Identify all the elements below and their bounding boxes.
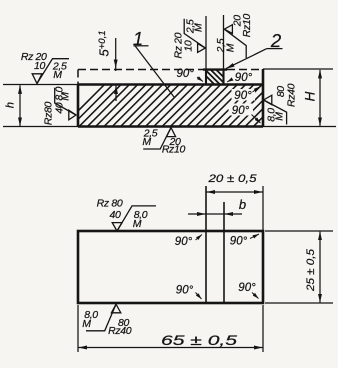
strip left extension line: [205, 16, 207, 70]
svg-text:Rz 80: Rz 80: [97, 198, 123, 210]
dimension 25±0,5: [265, 230, 333, 232]
roughness symbol S2 (Rz80/40 8,0 M) on left edge, rotated: [55, 88, 76, 120]
svg-text:10: 10: [34, 60, 45, 72]
svg-text:90°: 90°: [232, 105, 250, 117]
svg-text:90°: 90°: [235, 72, 253, 84]
dimension 20±0,5: [206, 191, 262, 193]
svg-text:25 ± 0,5: 25 ± 0,5: [305, 248, 317, 292]
roughness symbol S3 (Rz20/10 2,5 M) on strip left side, rotated: [184, 19, 205, 53]
bottom extension line: [3, 126, 336, 128]
roughness symbol S7 (Rz80/40 8,0 M) on top edge: [112, 206, 156, 231]
strip left line: [205, 186, 207, 303]
svg-text:65 ± 0,5: 65 ± 0,5: [161, 332, 237, 348]
90 deg label (bar bottom-right corner): [229, 104, 254, 116]
svg-text:20 ± 0,5: 20 ± 0,5: [207, 173, 257, 185]
dimension 5+0,1: [115, 38, 117, 68]
strip right extension line: [223, 15, 225, 70]
strip left edge: [205, 70, 207, 85]
strip right edge: [222, 70, 224, 85]
svg-text:М: М: [82, 318, 91, 330]
svg-text:Rz40: Rz40: [285, 83, 297, 107]
svg-text:90°: 90°: [176, 285, 194, 297]
svg-text:Rz10: Rz10: [162, 144, 186, 156]
dimension 65±0,5: [77, 305, 79, 352]
svg-text:b: b: [239, 197, 246, 212]
roughness symbol S5 (80/Rz40 8,0 M) on right edge, rotated mirrored: [264, 95, 287, 124]
hatch of bar (detail 1): [62, 84, 296, 127]
right extension above rect: [262, 186, 264, 231]
roughness symbol S6 (2,5 M 20/Rz10) on bottom surface, inverted: [143, 128, 175, 149]
svg-text:М: М: [60, 92, 72, 101]
bar (detail 1) contour: [78, 69, 263, 127]
svg-text:90°: 90°: [234, 90, 252, 102]
svg-text:М: М: [274, 112, 286, 121]
dimension h: [19, 85, 21, 126]
strip right line: [223, 202, 225, 303]
svg-text:40: 40: [53, 102, 65, 113]
svg-text:М: М: [192, 23, 204, 32]
svg-text:40: 40: [110, 209, 121, 221]
roughness symbol S4 (20/Rz10 2,5 M) on strip right side, rotated mirrored: [224, 25, 246, 58]
dashed allowance line: [78, 70, 262, 85]
svg-text:10: 10: [182, 40, 194, 51]
svg-text:90°: 90°: [177, 68, 195, 80]
deposited strip (detail 2) hatch: [198, 68, 231, 84]
svg-text:М: М: [133, 218, 142, 230]
svg-text:h: h: [5, 102, 17, 108]
svg-text:H: H: [303, 91, 318, 101]
strip top edge: [203, 68, 227, 70]
svg-text:90°: 90°: [230, 236, 248, 248]
svg-text:М: М: [53, 69, 62, 81]
roughness symbol S8 (8,0 M 80/Rz40) on bottom edge, inverted: [86, 304, 121, 331]
right extension line (allowance top): [263, 68, 333, 70]
rectangle contour: [78, 231, 263, 303]
roughness symbol S1 (Rz20/10 2,5 M) on top-left surface: [32, 59, 69, 84]
svg-text:М: М: [142, 136, 151, 148]
dimension H: [319, 70, 321, 126]
svg-text:Rz10: Rz10: [241, 14, 253, 38]
svg-text:90°: 90°: [238, 282, 256, 294]
svg-text:М: М: [224, 43, 236, 52]
dimension b: [188, 213, 206, 215]
left extension line (top of bar): [3, 84, 78, 86]
svg-text:Rz40: Rz40: [108, 325, 132, 337]
svg-text:90°: 90°: [175, 236, 193, 248]
90 deg label (bar top-right corner): [232, 89, 256, 101]
